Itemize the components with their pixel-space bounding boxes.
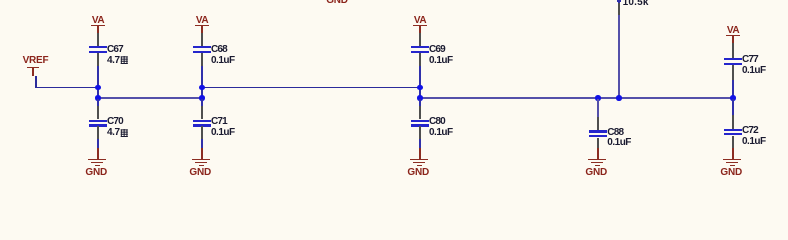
- pin C77 bottom (pin 2): [732, 65, 733, 80]
- pin resistor bottom pin: [618, 3, 619, 15]
- ground bar2 (C70): [91, 162, 103, 163]
- power port VA text (C67 column): [92, 16, 104, 26]
- node resistor bus junction: [616, 95, 621, 100]
- capacitor C67 value label 4.7uF: [107, 56, 120, 66]
- capacitor C71 plate 2: [193, 124, 211, 126]
- power port VA bar (C67 column): [91, 25, 105, 26]
- ground bar1 (C70): [88, 159, 106, 160]
- node C67/VREF junction: [95, 85, 100, 90]
- wire top of sheet to resistor pin: [618, 0, 620, 4]
- wire C68 to C69 (top bus): [202, 87, 421, 89]
- capacitor C68 plate 1: [193, 46, 211, 48]
- ground bar2 (C88): [591, 162, 603, 163]
- pin C70 bottom (pin 2): [97, 126, 98, 139]
- pin C88 bottom (pin 2): [597, 138, 598, 149]
- ground bar1 (C80): [410, 159, 428, 160]
- power port GND label at top (clipped): [326, 0, 348, 6]
- wire bus to C70: [97, 99, 99, 106]
- capacitor C88 plate 1: [589, 130, 607, 132]
- ground GND label (C80): [407, 168, 429, 178]
- ground bar1 (C88): [588, 159, 606, 160]
- capacitor C67 plate 1: [89, 46, 107, 48]
- capacitor C72 plate 1: [724, 129, 742, 131]
- wire stub above resistor pin: [617, 0, 620, 2]
- power port VA stem (C68 column): [201, 26, 203, 33]
- capacitor C80 plate 2: [411, 124, 429, 126]
- pin C69 bottom (pin 2): [419, 53, 420, 66]
- ground GND label (C70): [85, 168, 107, 178]
- node C77/C72 bus junction: [730, 95, 735, 100]
- wire bus to C72: [732, 99, 734, 115]
- capacitor C71 plate 1: [193, 120, 211, 122]
- ground bar3 (C70): [95, 165, 100, 166]
- ground stem (C72): [732, 148, 734, 159]
- node C68 top bus junction: [199, 85, 204, 90]
- pin C80 bottom (pin 2): [419, 126, 420, 139]
- wire C69 to C77/C72 (bottom bus): [419, 97, 734, 99]
- node C68/C71 bus junction: [199, 95, 204, 100]
- capacitor C77 plate 2: [724, 63, 742, 65]
- power port VA bar (C77 column): [726, 35, 740, 36]
- capacitor C69 designator label: [429, 45, 445, 55]
- pin C69 top (pin 1): [419, 33, 420, 46]
- pin C70 top (pin 1): [97, 106, 98, 120]
- capacitor C70 value label garbled uF glyph: [120, 129, 129, 137]
- capacitor C68 value label: [211, 56, 235, 66]
- pin C88 top (pin 1): [597, 117, 598, 130]
- capacitor C77 designator label: [742, 55, 758, 65]
- ground bar3 (C72): [730, 165, 735, 166]
- capacitor C80 plate 1: [411, 120, 429, 122]
- power port VA stem (C77 column): [732, 36, 734, 43]
- ground bar2 (C71): [195, 162, 207, 163]
- capacitor C70 plate 2: [89, 124, 107, 126]
- capacitor C77 plate 1: [724, 58, 742, 60]
- pin C67 top (pin 1): [97, 33, 98, 46]
- wire VREF to C67 (top bus left): [35, 87, 98, 89]
- wire C77 to bus: [732, 80, 734, 99]
- capacitor C67 value label garbled uF glyph: [120, 56, 129, 64]
- capacitor C72 designator label: [742, 126, 758, 136]
- ground GND label (C71): [189, 168, 211, 178]
- capacitor C80 value label: [429, 128, 453, 138]
- power port VREF label: [23, 56, 49, 66]
- capacitor C88 plate 2: [589, 135, 607, 137]
- ground GND label (C88): [585, 168, 607, 178]
- capacitor C80 designator label: [429, 117, 445, 127]
- power port VREF stem: [32, 68, 33, 77]
- capacitor C70 value label 4.7uF: [107, 128, 120, 138]
- ground bar1 (C72): [723, 159, 741, 160]
- pin C71 top (pin 1): [201, 106, 202, 120]
- node C69 top bus junction: [417, 85, 422, 90]
- power port VA text (C68 column): [196, 16, 208, 26]
- capacitor C72 plate 2: [724, 133, 742, 135]
- ground bar2 (C80): [413, 162, 425, 163]
- capacitor C67 plate 2: [89, 51, 107, 53]
- pin C77 top (pin 1): [732, 43, 733, 58]
- ground bar1 (C71): [192, 159, 210, 160]
- wire bus to C88: [597, 99, 599, 117]
- node C67/C70 bus junction: [95, 95, 100, 100]
- node C69/C80 bus junction: [417, 95, 422, 100]
- capacitor C67 designator label: [107, 45, 123, 55]
- capacitor C68 designator label: [211, 45, 227, 55]
- ground stem (C88): [597, 148, 599, 159]
- wire bus to C80: [419, 99, 421, 106]
- power port VA stem (C67 column): [97, 26, 99, 33]
- capacitor C88 designator label: [607, 128, 623, 138]
- node C88 bus junction: [595, 95, 600, 100]
- wire VREF vertical: [35, 76, 37, 87]
- pin C80 top (pin 1): [419, 106, 420, 120]
- ground bar2 (C72): [726, 162, 738, 163]
- power port VA bar (C69 column): [413, 25, 427, 26]
- pin C71 bottom (pin 2): [201, 126, 202, 139]
- power port VA stem (C69 column): [419, 26, 421, 33]
- ground GND label (C72): [720, 168, 742, 178]
- wire resistor to bus: [618, 15, 620, 99]
- capacitor C69 plate 1: [411, 46, 429, 48]
- power port VREF bar: [27, 67, 39, 68]
- pin C68 bottom (pin 2): [201, 53, 202, 66]
- capacitor C70 designator label: [107, 117, 123, 127]
- pin C67 bottom (pin 2): [97, 53, 98, 66]
- ground stem (C71): [201, 148, 203, 159]
- pin C72 top (pin 1): [732, 115, 733, 129]
- capacitor C71 designator label: [211, 117, 227, 127]
- capacitor C69 plate 2: [411, 51, 429, 53]
- wire C67 to C68 (bottom bus): [97, 97, 203, 99]
- ground bar3 (C71): [199, 165, 204, 166]
- ground stem (C80): [419, 148, 421, 159]
- wire bus to C71: [201, 99, 203, 106]
- capacitor C72 value label: [742, 137, 766, 147]
- capacitor C88 value label: [607, 138, 631, 148]
- wire C70 to ground: [97, 139, 99, 148]
- capacitor C71 value label: [211, 128, 235, 138]
- power port VA text (C69 column): [414, 16, 426, 26]
- capacitor C69 value label: [429, 56, 453, 66]
- ground bar3 (C88): [595, 165, 600, 166]
- capacitor C77 value label: [742, 66, 766, 76]
- pin C68 top (pin 1): [201, 33, 202, 46]
- ground bar3 (C80): [417, 165, 422, 166]
- wire C71 to ground: [201, 139, 203, 148]
- wire C68 to bus: [201, 66, 203, 99]
- pin C72 bottom (pin 2): [732, 136, 733, 148]
- wire C69 to bus: [419, 66, 421, 99]
- wire C80 to ground: [419, 139, 421, 148]
- ground stem (C70): [97, 148, 99, 159]
- power port VA text (C77 column): [727, 26, 739, 36]
- capacitor C70 plate 1: [89, 120, 107, 122]
- wire C67 to bus: [97, 66, 99, 99]
- capacitor C68 plate 2: [193, 51, 211, 53]
- resistor value label 10.5k (clipped): [623, 0, 649, 8]
- power port VA bar (C68 column): [195, 25, 209, 26]
